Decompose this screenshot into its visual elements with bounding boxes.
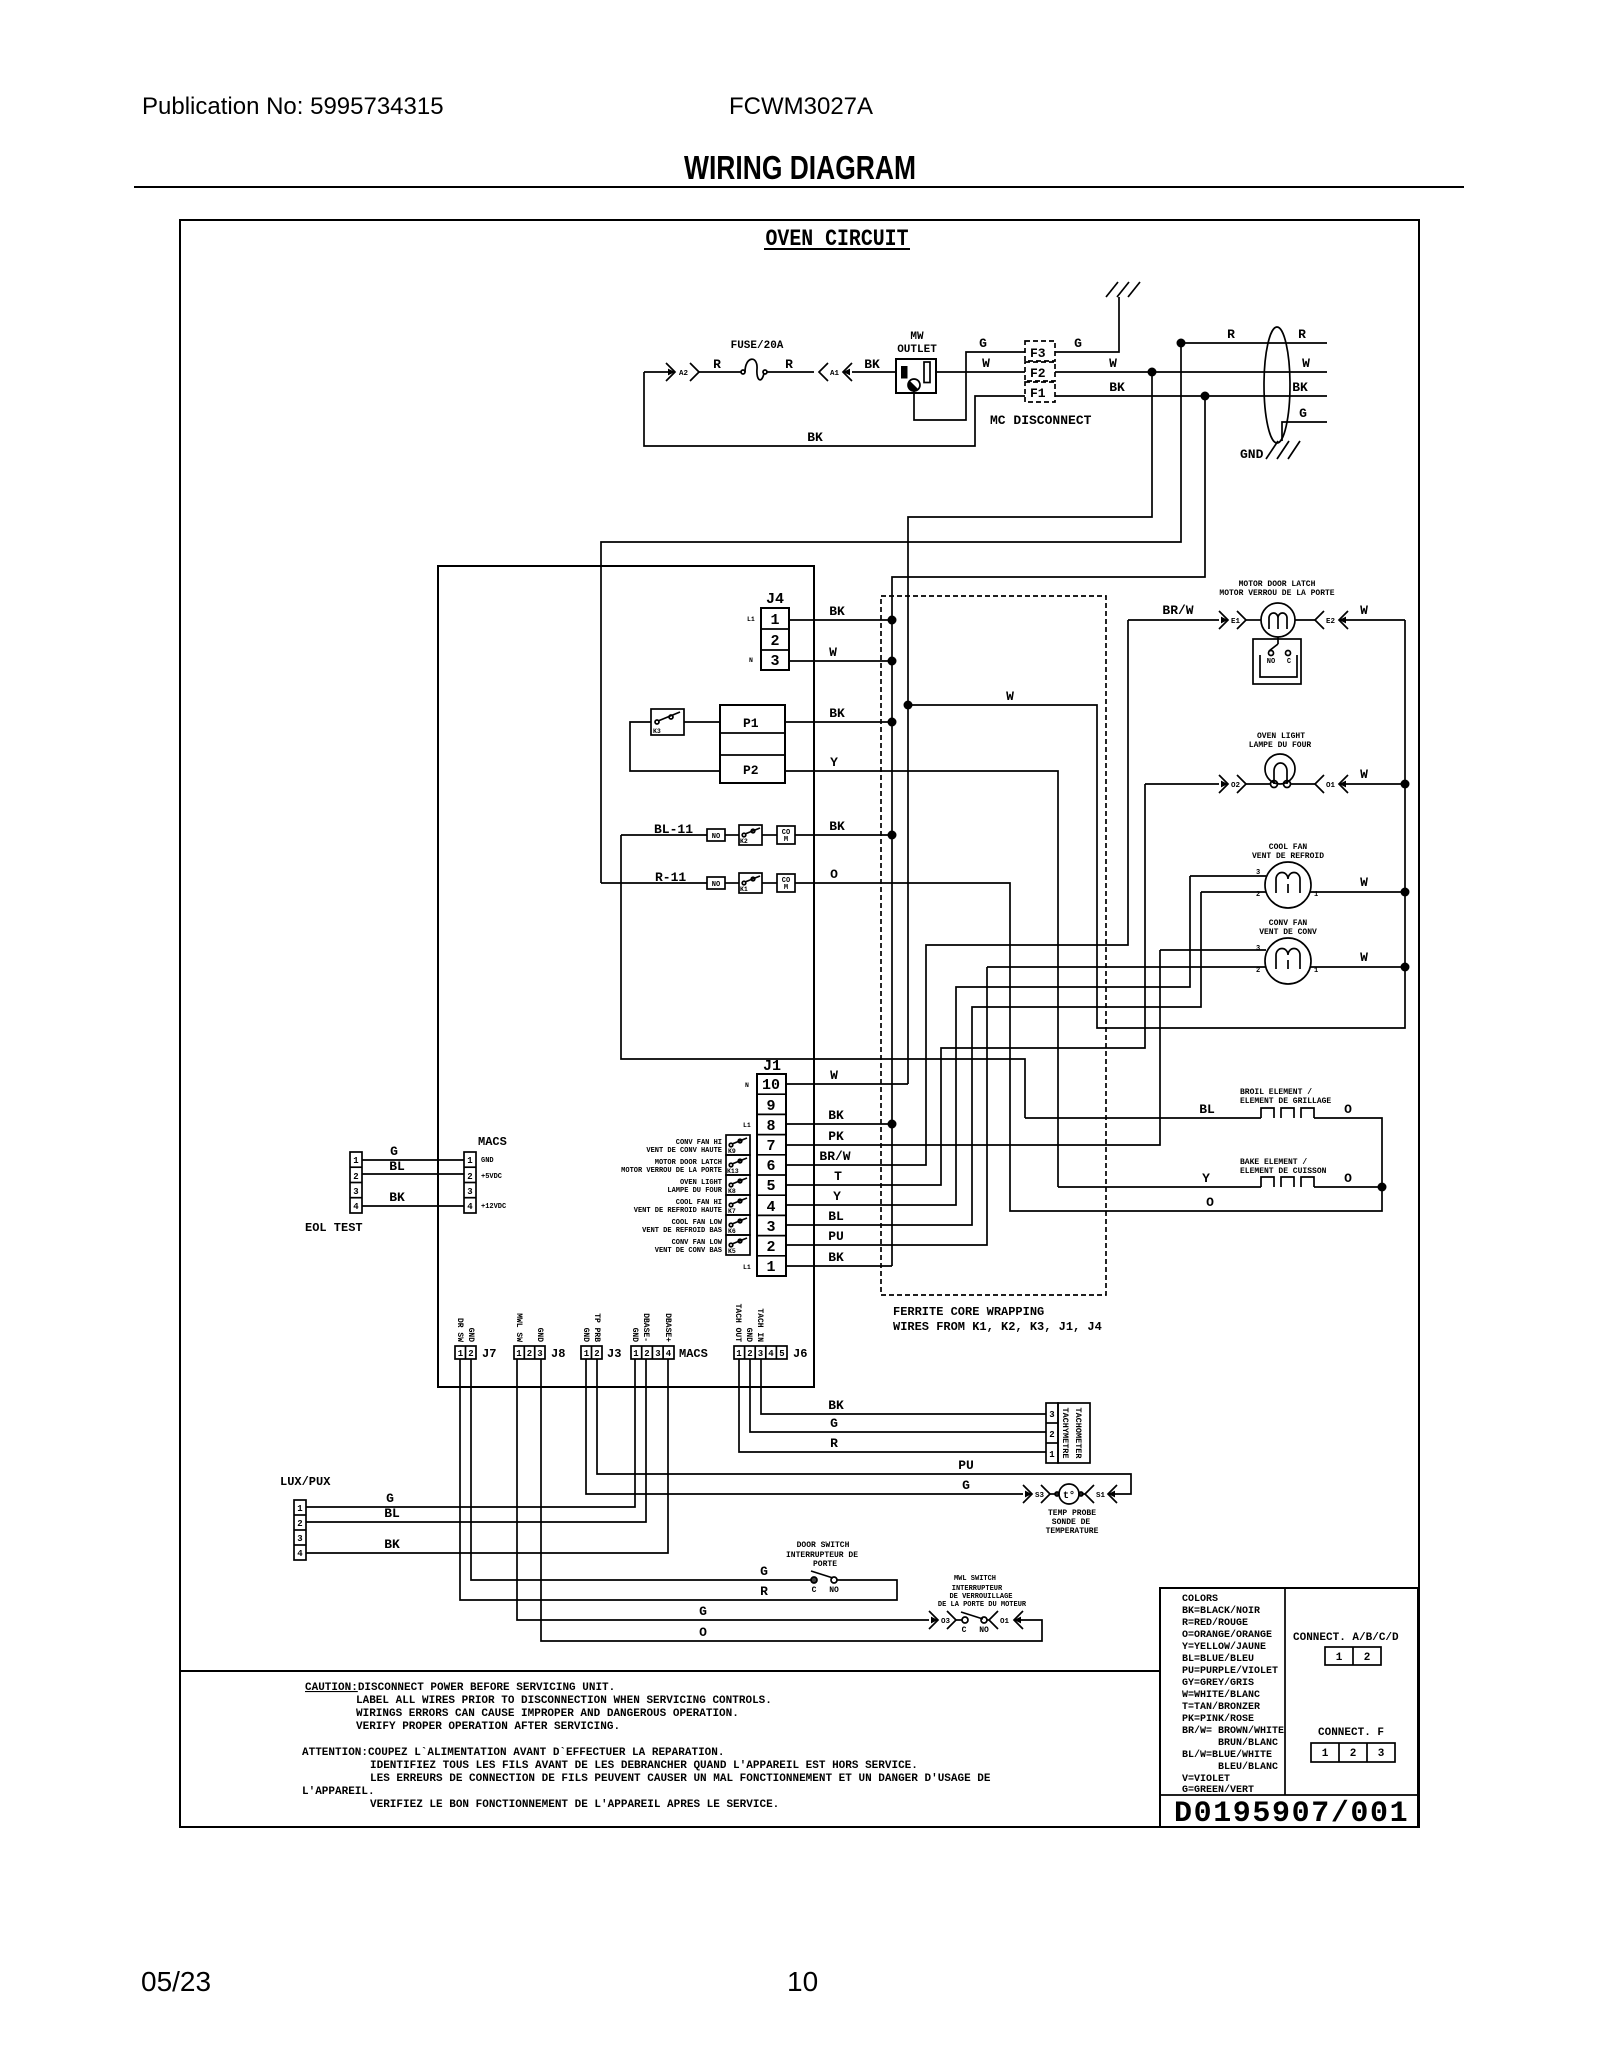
connector J4: [747, 591, 789, 670]
wire lamp to O1: [1291, 783, 1315, 785]
svg-text:O: O: [1344, 1102, 1352, 1117]
svg-text:P2: P2: [743, 763, 759, 778]
wire BR/W J1 pin6 to motor latch: [786, 620, 1128, 1165]
wire BL to broil element: [1025, 1117, 1261, 1119]
contact COM of K2: [777, 826, 795, 844]
svg-text:3: 3: [1049, 1410, 1054, 1420]
svg-text:CONNECT. A/B/C/D: CONNECT. A/B/C/D: [1293, 1632, 1399, 1644]
wire PU J3 pin2 to temp probe: [597, 1359, 1131, 1494]
wire T J1 pin5 to oven light: [786, 784, 1145, 1185]
svg-text:BK: BK: [807, 430, 823, 445]
svg-text:1: 1: [1049, 1450, 1055, 1460]
svg-text:4: 4: [297, 1549, 303, 1559]
svg-text:R=RED/ROUGE: R=RED/ROUGE: [1182, 1617, 1248, 1629]
svg-text:MOTOR DOOR LATCH: MOTOR DOOR LATCH: [655, 1159, 722, 1167]
junction BK node: [1201, 392, 1210, 401]
junction W node: [904, 701, 913, 710]
connector arrow A1: [819, 363, 852, 381]
connector arrow E1: [1219, 611, 1246, 629]
svg-text:BK: BK: [864, 357, 880, 372]
connector J8: [514, 1313, 565, 1361]
wire G J3 pin1 to temp probe: [586, 1359, 1023, 1494]
wire W outlet to F2: [936, 371, 1025, 373]
svg-text:VERIFY PROPER OPERATION AFTER: VERIFY PROPER OPERATION AFTER SERVICING.: [356, 1721, 620, 1733]
svg-text:TACH IN: TACH IN: [755, 1308, 764, 1342]
junction J4-1 node: [888, 616, 897, 625]
svg-text:Y: Y: [833, 1189, 841, 1204]
svg-text:T=TAN/BRONZER: T=TAN/BRONZER: [1182, 1701, 1260, 1713]
relay contact K5 pin2: [726, 1235, 750, 1255]
wire BK K2 COM to bus: [795, 834, 892, 836]
svg-text:CAUTION:DISCONNECT POWER BEFOR: CAUTION:DISCONNECT POWER BEFORE SERVICIN…: [305, 1682, 615, 1694]
relay contact K13 pin6: [726, 1155, 750, 1175]
caution text block: [302, 1682, 991, 1811]
wire Y P2 to bake element: [785, 771, 1058, 1187]
junction W bus oven light: [1401, 780, 1410, 789]
colors legend: [1182, 1594, 1284, 1796]
svg-text:INTERRUPTEUR DE: INTERRUPTEUR DE: [786, 1551, 858, 1560]
svg-text:N: N: [749, 657, 753, 664]
svg-text:G: G: [386, 1491, 394, 1506]
conv fan motor: [1256, 919, 1318, 984]
svg-text:MW: MW: [910, 331, 924, 343]
junction P1 node: [888, 718, 897, 727]
svg-text:VENT DE CONV: VENT DE CONV: [1259, 928, 1317, 937]
svg-text:8: 8: [766, 1118, 775, 1135]
wire W F2 to harness: [1055, 371, 1327, 373]
svg-text:E1: E1: [1231, 618, 1241, 626]
connect F legend: [1311, 1727, 1395, 1762]
svg-text:VENT DE REFROID: VENT DE REFROID: [1252, 852, 1324, 861]
svg-text:R: R: [1227, 327, 1235, 342]
svg-text:G: G: [390, 1144, 398, 1159]
oven light: [1249, 732, 1312, 788]
svg-text:O2: O2: [1231, 782, 1241, 790]
svg-text:INTERRUPTEUR: INTERRUPTEUR: [952, 1585, 1003, 1593]
relay coil block P1 P2: [720, 705, 785, 783]
broil element: [1240, 1088, 1331, 1118]
svg-text:10: 10: [762, 1077, 780, 1094]
svg-text:A2: A2: [679, 370, 689, 378]
connector arrow O3: [929, 1611, 956, 1629]
relay contact K8 pin5: [726, 1175, 750, 1195]
svg-text:OVEN LIGHT: OVEN LIGHT: [1257, 732, 1305, 741]
svg-text:WIRING DIAGRAM: WIRING DIAGRAM: [684, 149, 916, 186]
svg-text:BR/W= BROWN/WHITE: BR/W= BROWN/WHITE: [1182, 1725, 1284, 1737]
svg-text:TACHOMETER: TACHOMETER: [1073, 1407, 1083, 1459]
svg-text:5: 5: [766, 1178, 775, 1195]
wire R-11 left: [601, 882, 707, 884]
wire cool fan pin3: [1190, 875, 1266, 877]
svg-text:BL/W=BLUE/WHITE: BL/W=BLUE/WHITE: [1182, 1749, 1272, 1761]
connect A/B/C/D legend: [1293, 1632, 1399, 1665]
wire: [725, 882, 739, 884]
svg-text:K9: K9: [728, 1148, 736, 1155]
svg-text:G: G: [979, 336, 987, 351]
junction W bus conv fan: [1401, 963, 1410, 972]
svg-text:3: 3: [770, 653, 779, 670]
wire O broil element right: [1314, 1118, 1382, 1187]
svg-text:EOL TEST: EOL TEST: [305, 1221, 363, 1235]
svg-text:2: 2: [1350, 1748, 1357, 1760]
svg-text:ELEMENT DE GRILLAGE: ELEMENT DE GRILLAGE: [1240, 1097, 1331, 1106]
svg-text:Y: Y: [1202, 1171, 1210, 1186]
svg-text:PK: PK: [828, 1129, 844, 1144]
wire R harness stub: [1181, 342, 1327, 344]
svg-text:W: W: [1006, 689, 1014, 704]
svg-text:BRUN/BLANC: BRUN/BLANC: [1218, 1737, 1278, 1749]
svg-text:MWL SWITCH: MWL SWITCH: [954, 1575, 996, 1583]
wire PU J1 pin2 to conv fan low: [786, 967, 987, 1245]
svg-text:W: W: [1360, 875, 1368, 890]
wire G J6 pin2 to tachometer: [750, 1359, 1046, 1432]
svg-text:BK: BK: [829, 604, 845, 619]
svg-text:3: 3: [758, 1349, 763, 1359]
relay switch K2: [739, 825, 762, 845]
wire: [725, 834, 739, 836]
MW outlet: [896, 331, 937, 393]
connector arrow O1: [1315, 775, 1348, 793]
svg-text:GND: GND: [744, 1328, 753, 1343]
svg-text:J1: J1: [763, 1058, 781, 1075]
svg-text:O=ORANGE/ORANGE: O=ORANGE/ORANGE: [1182, 1629, 1272, 1641]
svg-text:BL: BL: [1199, 1102, 1215, 1117]
svg-text:G: G: [830, 1416, 838, 1431]
svg-text:1: 1: [467, 1156, 473, 1166]
wire R net from MC disconnect to relay R-11: [601, 343, 1181, 883]
contact NO of K2: [707, 829, 725, 841]
junction W node: [1148, 368, 1157, 377]
svg-text:O: O: [1344, 1171, 1352, 1186]
svg-text:1: 1: [516, 1349, 522, 1359]
svg-text:BR/W: BR/W: [819, 1149, 850, 1164]
wire W net from MC disconnect to J1 pin10: [908, 372, 1152, 1084]
svg-text:TP PRB: TP PRB: [592, 1313, 601, 1342]
svg-text:TEMP PROBE: TEMP PROBE: [1048, 1509, 1096, 1518]
wire W oven light to bus: [1339, 783, 1405, 785]
junction J1-8 node: [888, 1120, 897, 1129]
fuse block F3: [1025, 341, 1055, 361]
svg-text:LAMPE DU FOUR: LAMPE DU FOUR: [1249, 741, 1312, 750]
svg-text:COLORS: COLORS: [1182, 1594, 1218, 1605]
svg-text:O: O: [1206, 1195, 1214, 1210]
svg-text:BK: BK: [829, 819, 845, 834]
svg-text:3: 3: [467, 1187, 472, 1197]
connector arrow O1: [989, 1611, 1023, 1629]
junction W bus cool fan: [1401, 888, 1410, 897]
svg-text:VENT DE REFROID HAUTE: VENT DE REFROID HAUTE: [634, 1207, 722, 1215]
fuse block F2: [1025, 362, 1055, 381]
svg-text:CONV FAN LOW: CONV FAN LOW: [672, 1239, 723, 1247]
wire T to oven light: [1145, 783, 1219, 785]
contact COM of K1: [777, 874, 795, 892]
svg-text:NO: NO: [712, 833, 720, 841]
svg-text:BAKE ELEMENT /: BAKE ELEMENT /: [1240, 1158, 1307, 1167]
svg-text:BK: BK: [828, 1398, 844, 1413]
wire Y to bake element: [1058, 1186, 1261, 1188]
wire W conv fan pin1 to bus: [1310, 966, 1405, 968]
svg-text:O1: O1: [1326, 782, 1336, 790]
wire BL J1 pin3 to cool fan low: [786, 892, 1201, 1225]
svg-text:K2: K2: [740, 838, 748, 845]
svg-text:FERRITE CORE WRAPPING: FERRITE CORE WRAPPING: [893, 1305, 1044, 1319]
svg-text:J6: J6: [793, 1347, 807, 1361]
svg-text:2: 2: [770, 633, 779, 650]
wire R from fuse: [767, 371, 814, 373]
connector J1: [743, 1058, 786, 1276]
MWL switch: [938, 1575, 1027, 1635]
svg-text:MACS: MACS: [478, 1135, 507, 1149]
svg-text:ELEMENT DE CUISSON: ELEMENT DE CUISSON: [1240, 1167, 1327, 1176]
svg-text:LES ERREURS DE CONNECTION DE F: LES ERREURS DE CONNECTION DE FILS PEUVEN…: [370, 1773, 991, 1785]
wire motor to E1: [1246, 619, 1261, 621]
svg-text:NO: NO: [829, 1586, 839, 1595]
svg-text:T: T: [834, 1169, 842, 1184]
svg-text:PU: PU: [828, 1229, 844, 1244]
wire O bake element right: [1314, 1186, 1382, 1188]
svg-text:E2: E2: [1326, 618, 1336, 626]
svg-text:GND: GND: [535, 1328, 544, 1343]
connector J6: [733, 1304, 807, 1361]
junction R node: [1177, 339, 1186, 348]
svg-text:BL: BL: [828, 1209, 844, 1224]
svg-text:K8: K8: [728, 1188, 736, 1195]
contact NO of K1: [707, 877, 725, 889]
svg-text:2: 2: [1256, 967, 1260, 975]
svg-text:+5VDC: +5VDC: [481, 1173, 502, 1181]
wire BL LUX pin2 to MACS pin2: [306, 1359, 646, 1522]
svg-text:2: 2: [467, 1172, 472, 1182]
connector MACS side: [464, 1135, 507, 1213]
wire BK into MW outlet: [852, 371, 896, 373]
svg-text:3: 3: [297, 1534, 302, 1544]
svg-text:G: G: [1299, 406, 1307, 421]
svg-text:BL: BL: [384, 1506, 400, 1521]
connector arrow O2: [1219, 775, 1246, 793]
svg-text:1: 1: [458, 1349, 464, 1359]
wire G J7 pin2 to door switch C: [471, 1359, 811, 1580]
svg-text:ATTENTION:COUPEZ L`ALIMENTATIO: ATTENTION:COUPEZ L`ALIMENTATION AVANT D`…: [302, 1747, 724, 1759]
svg-text:LABEL ALL WIRES PRIOR TO DISCO: LABEL ALL WIRES PRIOR TO DISCONNECTION W…: [356, 1695, 772, 1707]
wire W branch to loads: [908, 620, 1405, 1028]
ground symbol top: [1106, 282, 1140, 297]
connector LUX/PUX: [280, 1475, 331, 1560]
connector J7: [455, 1318, 496, 1361]
svg-text:W: W: [1109, 356, 1117, 371]
wire W J1 pin10: [786, 1083, 908, 1085]
svg-text:PU=PURPLE/VIOLET: PU=PURPLE/VIOLET: [1182, 1665, 1278, 1677]
svg-text:BROIL ELEMENT /: BROIL ELEMENT /: [1240, 1088, 1312, 1097]
svg-text:V=VIOLET: V=VIOLET: [1182, 1774, 1230, 1785]
wire G F3 to antenna ground: [1055, 297, 1119, 352]
wire BK J1 pin8: [786, 1123, 892, 1125]
svg-text:M: M: [784, 884, 788, 892]
wire: [762, 882, 777, 884]
svg-text:L1: L1: [743, 1122, 751, 1129]
svg-text:2: 2: [594, 1349, 599, 1359]
junction J4-3 node: [888, 657, 897, 666]
bake element: [1240, 1158, 1327, 1187]
svg-text:1: 1: [1322, 1748, 1329, 1760]
junction O node: [1378, 1183, 1387, 1192]
svg-text:MWL SW: MWL SW: [514, 1313, 523, 1342]
svg-text:1: 1: [736, 1349, 742, 1359]
svg-text:W: W: [982, 356, 990, 371]
svg-text:CONV FAN HI: CONV FAN HI: [676, 1139, 722, 1147]
svg-text:CONV FAN: CONV FAN: [1269, 919, 1308, 928]
svg-text:F1: F1: [1030, 386, 1046, 401]
svg-text:R: R: [785, 357, 793, 372]
svg-text:W=WHITE/BLANC: W=WHITE/BLANC: [1182, 1689, 1260, 1701]
svg-text:O: O: [699, 1625, 707, 1640]
svg-text:LUX/PUX: LUX/PUX: [280, 1475, 331, 1489]
control board outline: [438, 566, 814, 1387]
svg-text:FCWM3027A: FCWM3027A: [729, 93, 873, 120]
svg-text:Y: Y: [830, 755, 838, 770]
svg-text:GND: GND: [1240, 447, 1264, 462]
title rule: [134, 186, 1464, 188]
svg-text:BR/W: BR/W: [1162, 603, 1193, 618]
svg-text:2: 2: [747, 1349, 752, 1359]
svg-text:G=GREEN/VERT: G=GREEN/VERT: [1182, 1784, 1254, 1796]
svg-text:3: 3: [1378, 1748, 1385, 1760]
wire arrow to C contact: [956, 1619, 962, 1621]
svg-text:BK: BK: [389, 1190, 405, 1205]
connector arrow S1: [1085, 1485, 1117, 1503]
svg-text:WIRES FROM K1, K2, K3, J1, J4: WIRES FROM K1, K2, K3, J1, J4: [893, 1320, 1102, 1334]
svg-text:4: 4: [666, 1349, 672, 1359]
svg-text:OUTLET: OUTLET: [897, 344, 937, 356]
svg-text:BK: BK: [1292, 380, 1308, 395]
svg-text:SONDE DE: SONDE DE: [1052, 1518, 1091, 1527]
legend box: [1160, 1588, 1418, 1827]
svg-text:L'APPAREIL.: L'APPAREIL.: [302, 1786, 375, 1798]
svg-text:N: N: [745, 1082, 749, 1089]
svg-text:NO: NO: [1267, 658, 1275, 666]
svg-text:VERIFIEZ LE BON FONCTIONNEMENT: VERIFIEZ LE BON FONCTIONNEMENT DE L'APPA…: [370, 1799, 779, 1811]
svg-text:J7: J7: [482, 1347, 496, 1361]
svg-text:GND: GND: [466, 1328, 475, 1343]
svg-text:GND: GND: [630, 1328, 639, 1343]
svg-text:BK: BK: [828, 1108, 844, 1123]
wire G outlet ground to F3: [914, 352, 1025, 420]
svg-text:MACS: MACS: [679, 1347, 708, 1361]
ferrite core dashed box: [881, 596, 1106, 1295]
wire motor to E2: [1295, 619, 1315, 621]
wire BL-11 left: [621, 834, 707, 836]
svg-text:O3: O3: [941, 1618, 951, 1626]
svg-text:MC DISCONNECT: MC DISCONNECT: [990, 413, 1092, 428]
wire R vertical J7 pin1: [460, 1359, 739, 1600]
wire G J8 pin1 to MWL switch: [517, 1359, 929, 1620]
svg-text:R: R: [713, 357, 721, 372]
svg-text:t°: t°: [1063, 1490, 1075, 1502]
svg-text:DE LA PORTE DU MOTEUR: DE LA PORTE DU MOTEUR: [938, 1601, 1027, 1609]
svg-text:+12VDC: +12VDC: [481, 1203, 506, 1211]
svg-text:2: 2: [1364, 1652, 1371, 1664]
svg-text:DOOR SWITCH: DOOR SWITCH: [797, 1541, 850, 1550]
svg-text:R: R: [1298, 327, 1306, 342]
svg-text:W: W: [1360, 767, 1368, 782]
relay contact K7 pin4: [726, 1195, 750, 1215]
wire cool fan pin2: [1201, 891, 1266, 893]
svg-text:1: 1: [584, 1349, 590, 1359]
svg-text:O: O: [830, 867, 838, 882]
svg-text:2: 2: [527, 1349, 532, 1359]
wire O J8 pin3 to MWL switch NO: [541, 1359, 1042, 1641]
wire K3 to P2 loop: [630, 722, 720, 771]
svg-text:TACHYMETRE: TACHYMETRE: [1060, 1407, 1070, 1458]
wire BK J4 pin1: [789, 619, 892, 621]
svg-text:W: W: [1360, 603, 1368, 618]
svg-text:S3: S3: [1035, 1492, 1045, 1500]
wire conv fan pin2: [987, 966, 1266, 968]
svg-text:3: 3: [537, 1349, 542, 1359]
svg-text:G: G: [699, 1604, 707, 1619]
connector arrow A2: [666, 363, 699, 381]
wire K3 to P1: [684, 721, 720, 723]
svg-text:3: 3: [353, 1187, 358, 1197]
svg-text:J4: J4: [766, 591, 784, 608]
svg-text:1: 1: [1336, 1652, 1343, 1664]
wire Y J1 pin4 to cool fan hi: [786, 876, 1190, 1205]
svg-text:BK: BK: [1109, 380, 1125, 395]
svg-text:GY=GREY/GRIS: GY=GREY/GRIS: [1182, 1677, 1254, 1689]
wire L1 from fuse loop left: [644, 371, 671, 373]
svg-text:1: 1: [766, 1259, 775, 1276]
wire BK LUX pin4 to MACS pin4: [306, 1359, 668, 1553]
svg-text:4: 4: [467, 1202, 473, 1212]
wire G ground stub: [1282, 422, 1327, 441]
wire PK J1 pin7 to conv fan hi: [786, 950, 1160, 1145]
svg-text:W: W: [1302, 356, 1310, 371]
svg-text:K7: K7: [728, 1208, 736, 1215]
svg-text:1: 1: [297, 1504, 303, 1514]
svg-text:BL: BL: [389, 1159, 405, 1174]
svg-text:1: 1: [633, 1349, 639, 1359]
wire BK F1 to harness: [1055, 395, 1327, 397]
svg-text:2: 2: [468, 1349, 473, 1359]
svg-text:CONNECT. F: CONNECT. F: [1318, 1727, 1384, 1739]
fuse block F1: [1025, 382, 1055, 402]
separator line: [180, 1670, 1160, 1672]
wire conv fan pin3: [1160, 949, 1266, 951]
svg-text:K1: K1: [740, 886, 748, 893]
svg-text:1: 1: [770, 612, 779, 629]
cool fan motor: [1252, 843, 1324, 908]
svg-text:DBASE-: DBASE-: [641, 1313, 650, 1342]
connector MACS bottom: [630, 1313, 708, 1361]
svg-text:G: G: [962, 1478, 970, 1493]
connector arrow S3: [1023, 1485, 1050, 1503]
svg-text:IDENTIFIEZ TOUS LES FILS AVANT: IDENTIFIEZ TOUS LES FILS AVANT DE LES DE…: [370, 1760, 918, 1772]
svg-text:4: 4: [353, 1202, 359, 1212]
svg-text:COOL FAN: COOL FAN: [1269, 843, 1308, 852]
wire O K1 COM to elements: [795, 883, 1382, 1211]
wire W cool fan pin1 to bus: [1310, 891, 1405, 893]
svg-text:NO: NO: [712, 881, 720, 889]
svg-text:2: 2: [766, 1239, 775, 1256]
svg-text:TACH OUT: TACH OUT: [733, 1304, 742, 1343]
svg-text:MOTOR VERROU DE LA PORTE: MOTOR VERROU DE LA PORTE: [1219, 589, 1334, 598]
svg-text:BLEU/BLANC: BLEU/BLANC: [1218, 1761, 1278, 1773]
svg-text:VENT DE CONV BAS: VENT DE CONV BAS: [655, 1247, 722, 1255]
svg-text:4: 4: [768, 1349, 774, 1359]
wire BR/W to motor latch: [1128, 619, 1219, 621]
svg-text:BK: BK: [384, 1537, 400, 1552]
svg-text:05/23: 05/23: [141, 1966, 211, 1997]
svg-text:2: 2: [353, 1172, 358, 1182]
